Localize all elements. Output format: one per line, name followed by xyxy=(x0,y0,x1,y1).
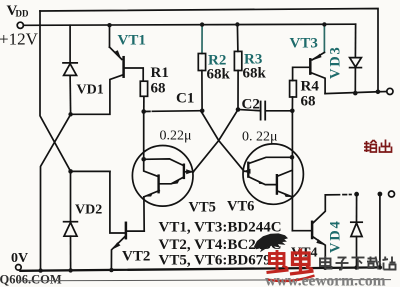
svg-text:VT3: VT3 xyxy=(290,36,318,52)
wire 0V bottom rail xyxy=(20,267,380,270)
svg-text:VD3: VD3 xyxy=(328,45,344,79)
watermark red chongchong characters xyxy=(267,249,315,282)
wire top rail upper (+12V feed to right corner) xyxy=(40,9,378,92)
diode VD2 xyxy=(64,171,78,270)
node rail right end xyxy=(378,265,382,269)
node VD2 bottom on rail xyxy=(68,268,72,272)
node VD3 bottom xyxy=(353,91,358,96)
resistor R3 xyxy=(234,25,241,110)
svg-text:R4: R4 xyxy=(301,79,320,95)
wire VD1 node to VT1 collector xyxy=(71,75,123,114)
diode VD4 xyxy=(351,194,362,267)
svg-text:68: 68 xyxy=(151,81,166,97)
node VT4 emitter on rail xyxy=(323,266,327,270)
transistor VT4 xyxy=(292,195,325,268)
wire coupling diagonal B (R3 node to VT5 emitter arrow) xyxy=(193,111,237,172)
svg-text:VT1: VT1 xyxy=(118,33,146,49)
transistor VT2 xyxy=(110,171,144,270)
svg-text:0. 22μ: 0. 22μ xyxy=(242,130,278,145)
node R2 bottom xyxy=(200,109,205,114)
transistor VT5 (darlington circle) xyxy=(132,146,193,207)
svg-text:R1: R1 xyxy=(151,65,169,81)
capacitor C2 xyxy=(238,102,292,120)
capacitor C1 (wire with small gap) xyxy=(145,110,202,113)
svg-text:C2: C2 xyxy=(242,97,260,113)
watermark Chinese site name (电子下载站) xyxy=(320,256,396,270)
node VD2 top xyxy=(68,169,73,174)
wire coupling diagonal A (R2 node to VT6 base) xyxy=(201,111,244,171)
node R3 top on rail xyxy=(235,22,239,26)
node VT2 emitter on rail xyxy=(109,268,113,272)
svg-text:VT5: VT5 xyxy=(189,200,216,216)
svg-text:DD: DD xyxy=(16,9,29,19)
node output lower drop xyxy=(378,192,383,197)
node VD4 top xyxy=(354,192,359,197)
transistor VT1 (PNP driver) xyxy=(110,25,144,81)
label output (Chinese 输出) xyxy=(364,140,392,153)
node rail1 drop xyxy=(376,90,381,95)
svg-text:0V: 0V xyxy=(11,251,28,266)
svg-text:VD1: VD1 xyxy=(77,83,104,98)
svg-text:0.22μ: 0.22μ xyxy=(160,129,192,144)
diode VD3 xyxy=(350,24,362,93)
svg-text:Q606.COM: Q606.COM xyxy=(0,273,62,287)
node VT5 top xyxy=(141,157,146,162)
diode VD1 xyxy=(63,25,77,114)
node R1 bottom / C1 left xyxy=(141,109,146,114)
node VT3 emitter on rail xyxy=(322,22,326,26)
svg-text:C1: C1 xyxy=(176,91,194,107)
watermark strikethrough line xyxy=(17,280,391,281)
terminal VDD xyxy=(17,22,23,28)
transistor VT3 (PNP driver) xyxy=(293,24,326,93)
svg-text:VD2: VD2 xyxy=(75,203,102,218)
svg-text:68k: 68k xyxy=(207,67,231,83)
wire left vertical upper (x=40) xyxy=(40,11,71,171)
wire VD2 node to VT2 base xyxy=(71,170,110,172)
terminal output lower xyxy=(389,191,395,197)
svg-text:VT6: VT6 xyxy=(227,199,254,215)
svg-text:VD4: VD4 xyxy=(328,219,344,253)
svg-text:VT2: VT2 xyxy=(122,249,150,265)
node R2 top on rail xyxy=(200,22,204,26)
wire output upper line xyxy=(325,92,387,94)
node R3 bottom xyxy=(236,107,241,112)
resistor R1 xyxy=(140,81,147,111)
node R4 bottom / C2 right xyxy=(290,109,295,114)
terminal output upper xyxy=(387,88,393,94)
node x40 on rail xyxy=(38,268,42,272)
resistor R4 xyxy=(290,81,297,111)
wire VT5 emitter down to VT2 collector xyxy=(143,197,145,231)
node VT6 collector xyxy=(290,155,295,160)
svg-text:www.eeworm.com: www.eeworm.com xyxy=(265,273,386,287)
svg-text:68: 68 xyxy=(301,94,316,110)
watermark bat icon xyxy=(254,233,288,252)
wire cross diagonal from VD1 node to lower left vertical xyxy=(41,114,71,270)
svg-text:VT5, VT6:BD679: VT5, VT6:BD679 xyxy=(159,253,271,269)
terminal 0V xyxy=(16,265,22,271)
wire top rail lower (VDD to VD3 corner) xyxy=(24,24,356,25)
resistor R2 xyxy=(198,25,205,111)
transistor VT6 (darlington circle) xyxy=(243,144,303,204)
wire output lower drop to 0V rail xyxy=(379,194,381,267)
node VT1 emitter on rail xyxy=(107,23,111,27)
svg-text:VT1, VT3:BD244C: VT1, VT3:BD244C xyxy=(159,220,282,236)
node VD4 bottom on rail xyxy=(354,265,358,269)
svg-text:+12V: +12V xyxy=(0,30,39,49)
node VD1-VT1 collector junction xyxy=(68,112,72,116)
wire output lower line (dash-dot) xyxy=(325,194,351,196)
svg-text:68k: 68k xyxy=(243,66,267,82)
